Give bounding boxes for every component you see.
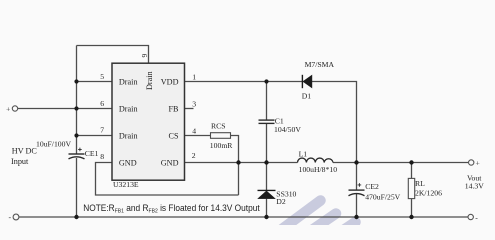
diode D1: [302, 75, 312, 88]
svg-text:2: 2: [192, 151, 196, 160]
svg-text:470uF/25V: 470uF/25V: [365, 193, 400, 202]
svg-text:1: 1: [192, 72, 196, 81]
svg-text:M7/SMA: M7/SMA: [305, 60, 335, 69]
svg-text:L1: L1: [299, 150, 308, 159]
svg-text:7: 7: [100, 125, 104, 134]
svg-text:10uF/100V: 10uF/100V: [36, 139, 71, 148]
note text: [83, 203, 260, 215]
capacitor CE1 plus sign: [78, 148, 82, 152]
wire L1 to Vout plus: [333, 162, 469, 164]
svg-text:FB: FB: [168, 104, 179, 113]
svg-text:9: 9: [140, 54, 149, 58]
watermark stroke B: [311, 214, 337, 232]
wire pin3 stub: [185, 108, 194, 110]
svg-text:100uH/8*10: 100uH/8*10: [299, 165, 338, 174]
svg-text:Drain: Drain: [145, 71, 154, 90]
svg-text:4: 4: [192, 126, 196, 135]
svg-text:NOTE:RFB1 and RFB2 is Floated: NOTE:RFB1 and RFB2 is Floated for 14.3V …: [83, 203, 260, 215]
wire RL branch: [411, 163, 413, 218]
terminal output plus: [469, 160, 474, 165]
svg-text:Drain: Drain: [119, 104, 138, 113]
svg-text:D1: D1: [302, 91, 312, 100]
svg-text:6: 6: [100, 99, 104, 108]
svg-text:100mR: 100mR: [210, 141, 234, 150]
svg-text:104/50V: 104/50V: [274, 125, 301, 134]
wire pin1 vdd: [185, 81, 303, 83]
wire left bus: [76, 46, 78, 155]
wire CE2 branch: [356, 163, 358, 218]
svg-text:+: +: [6, 104, 10, 113]
svg-text:-: -: [9, 213, 12, 222]
wire pin8 gnd loop: [96, 163, 239, 196]
wire CE1 bottom: [76, 158, 78, 217]
svg-text:C1: C1: [275, 116, 284, 125]
svg-text:RCS: RCS: [211, 121, 226, 130]
capacitor CE2: [349, 190, 365, 196]
svg-text:GND: GND: [119, 158, 137, 167]
wire D2 branch: [266, 163, 268, 218]
terminal input minus: [13, 214, 19, 220]
capacitor CE2 plus sign: [358, 183, 362, 187]
svg-text:3: 3: [192, 100, 196, 109]
watermark stroke C: [342, 222, 356, 231]
wire top loop to pin9: [77, 46, 149, 64]
wire bottom rail: [19, 216, 468, 218]
wire pin4 to RCS: [185, 135, 211, 137]
svg-text:2K/1206: 2K/1206: [415, 189, 442, 198]
wire pin2 to node: [185, 162, 298, 164]
capacitor C1: [259, 120, 275, 123]
svg-text:Input: Input: [11, 157, 29, 166]
wire D1 to switch node: [312, 82, 357, 163]
svg-text:GND: GND: [161, 158, 179, 167]
svg-text:D2: D2: [276, 197, 286, 206]
svg-text:Drain: Drain: [119, 77, 138, 86]
wire RCS to gnd bus: [231, 136, 239, 196]
terminal input plus: [12, 106, 17, 111]
svg-text:14.3V: 14.3V: [465, 181, 484, 190]
watermark stroke A: [278, 201, 321, 233]
svg-text:VDD: VDD: [161, 77, 179, 86]
IC U3213E body: [112, 63, 185, 180]
wire input plus to pin6: [18, 108, 112, 110]
terminal output minus: [468, 214, 473, 219]
wire C1 branch: [266, 82, 268, 163]
svg-text:-: -: [475, 213, 478, 222]
resistor RL: [408, 178, 414, 198]
svg-text:RL: RL: [415, 179, 425, 188]
svg-text:CS: CS: [168, 131, 178, 140]
svg-text:5: 5: [100, 72, 104, 81]
capacitor CE1: [69, 154, 85, 159]
svg-text:8: 8: [100, 152, 104, 161]
resistor RCS: [211, 133, 231, 139]
wire pin5: [77, 81, 113, 83]
svg-text:+: +: [476, 158, 480, 167]
svg-text:CE2: CE2: [365, 182, 379, 191]
inductor L1: [298, 158, 333, 162]
wire pin7: [77, 135, 113, 137]
svg-text:CE1: CE1: [85, 149, 99, 158]
diode D2: [258, 190, 276, 198]
svg-text:U3213E: U3213E: [113, 180, 139, 189]
svg-text:Drain: Drain: [119, 131, 138, 140]
svg-text:HV DC: HV DC: [12, 147, 38, 156]
